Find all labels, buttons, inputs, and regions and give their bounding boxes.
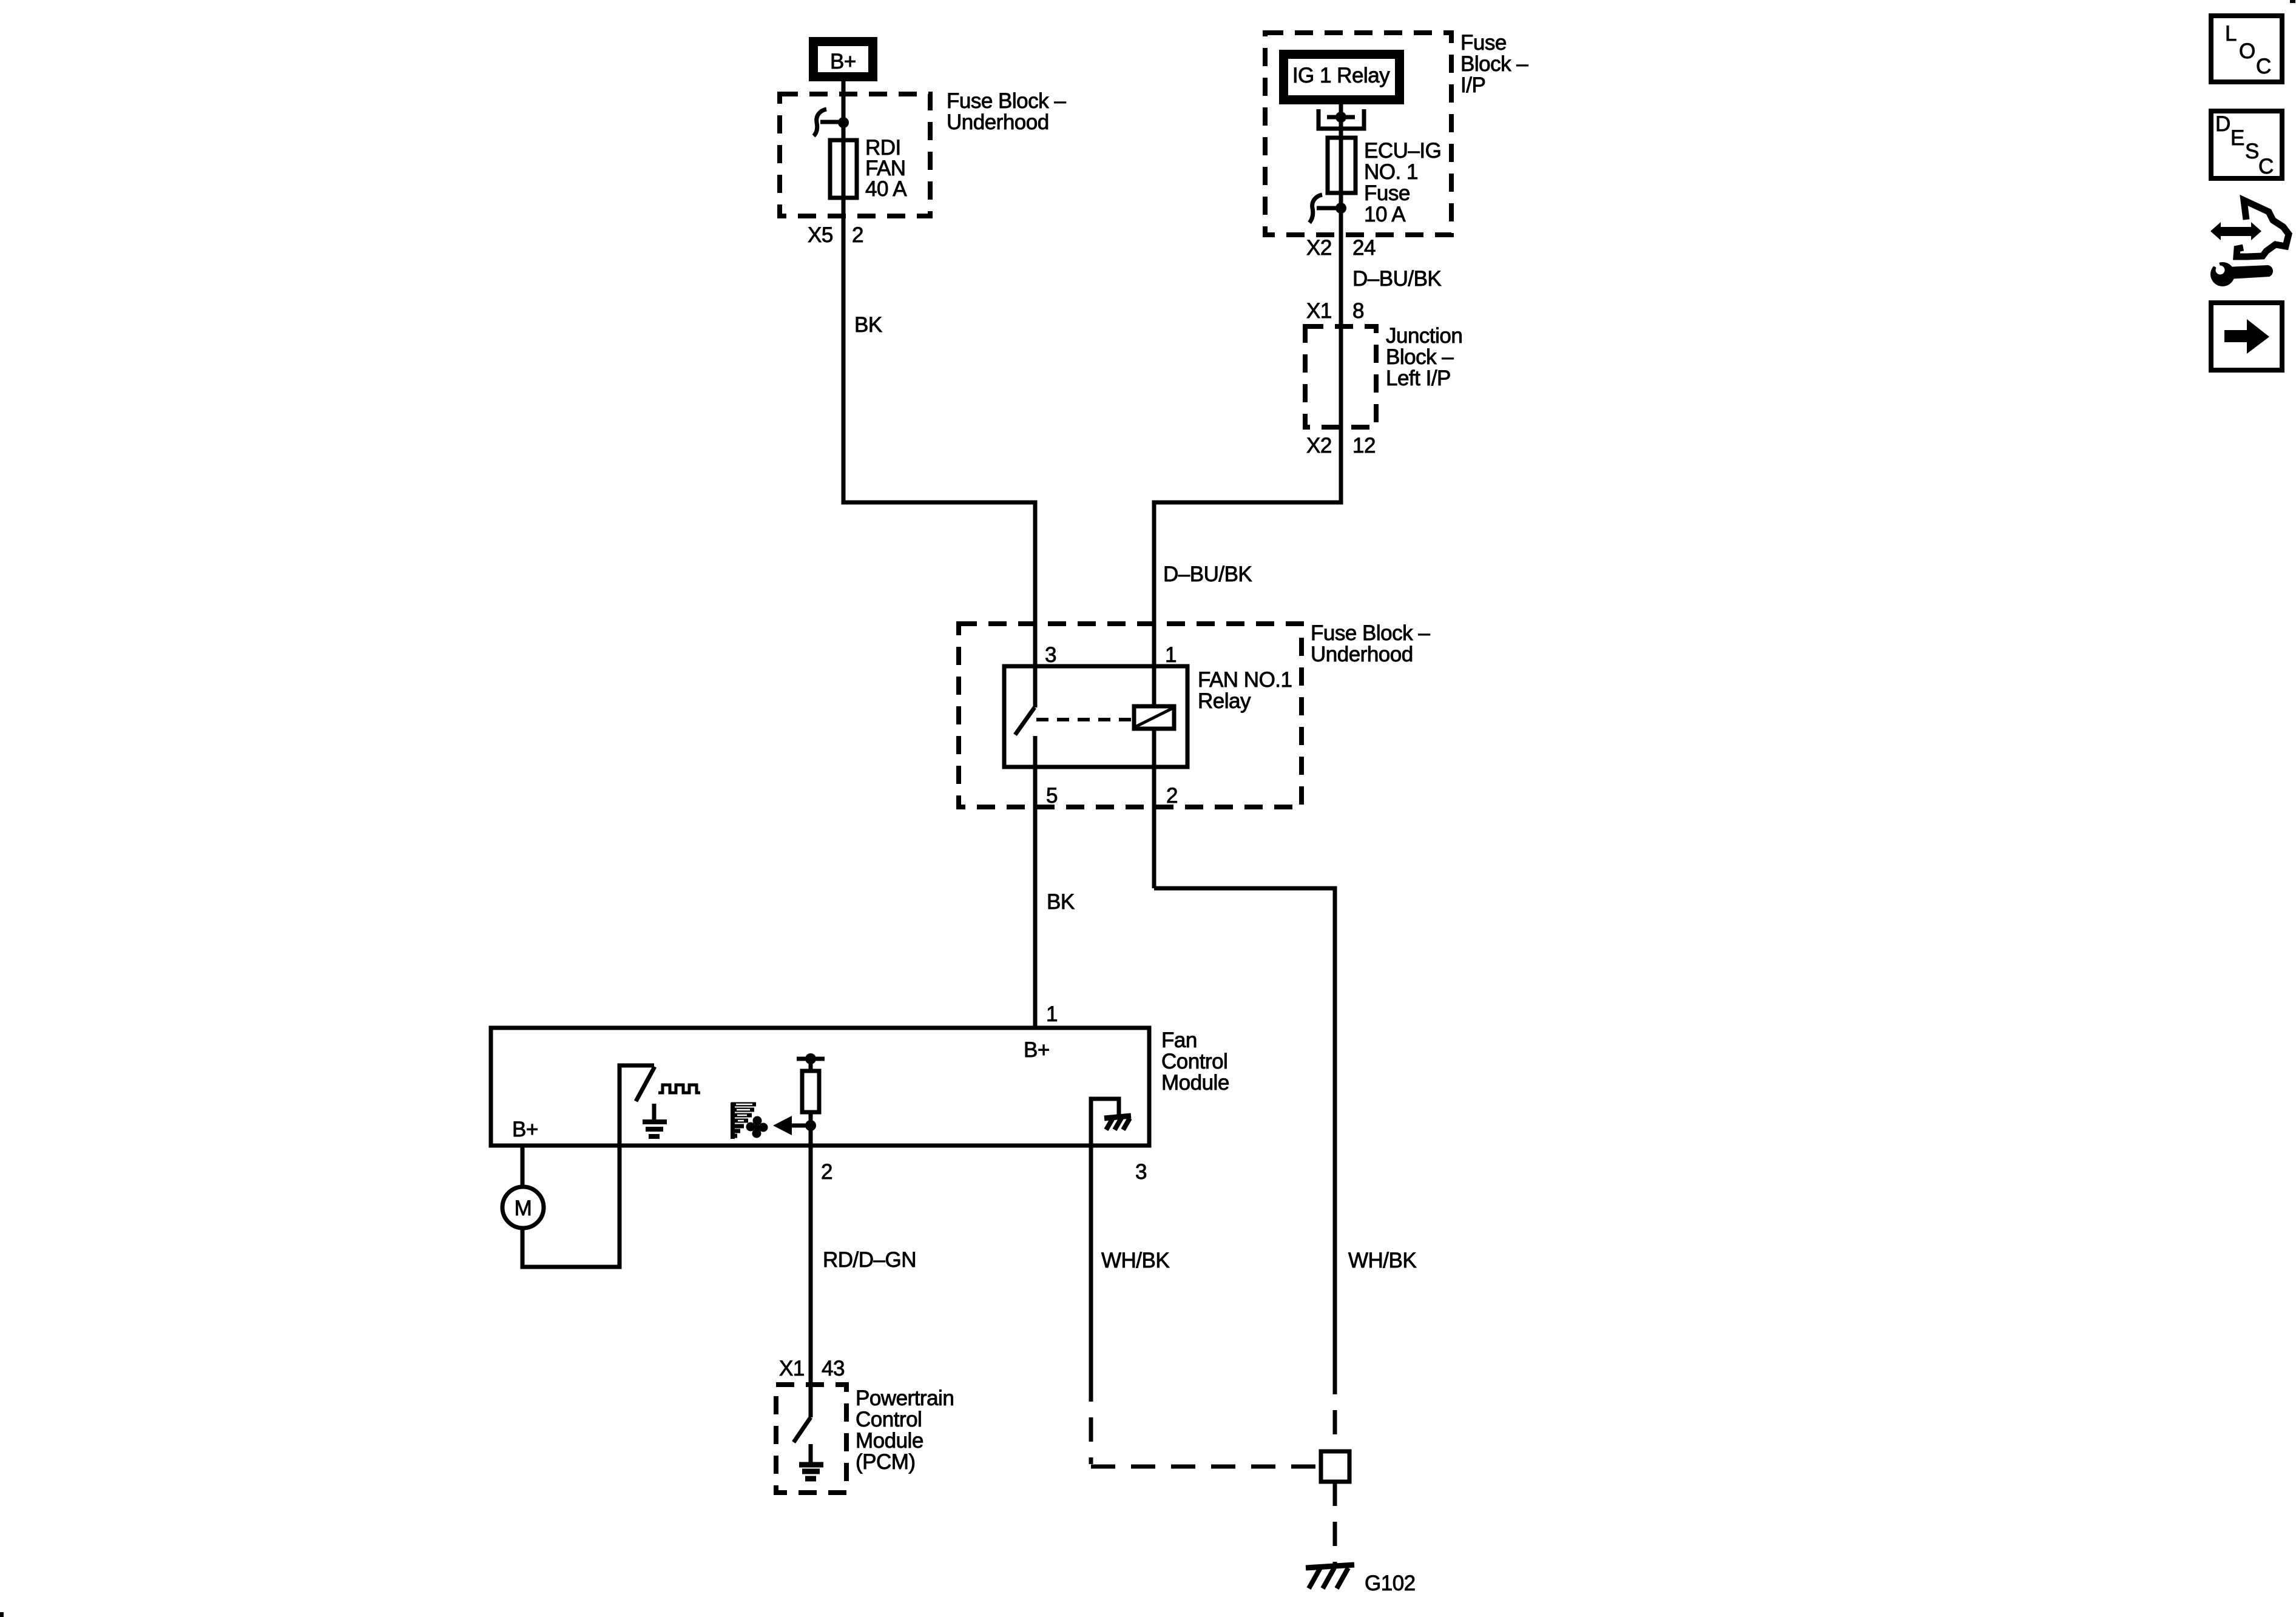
- svg-text:B+: B+: [512, 1118, 538, 1141]
- svg-text:1: 1: [1165, 643, 1177, 667]
- svg-text:43: 43: [822, 1357, 845, 1380]
- wire hook to junction: [1317, 206, 1337, 211]
- switch driver inside module: [620, 1065, 654, 1146]
- svg-text:RD/D–GN: RD/D–GN: [823, 1248, 916, 1272]
- svg-text:8: 8: [1352, 299, 1364, 323]
- svg-text:I/P: I/P: [1460, 73, 1485, 97]
- svg-text:D–BU/BK: D–BU/BK: [1352, 267, 1441, 291]
- wire IG1 relay down through ECU-IG fuse, jog left at y828 to relay pin 1: [1154, 104, 1341, 888]
- splice S1 box: [1321, 1451, 1349, 1482]
- node junction dot above ECU-IG fuse: [1335, 112, 1346, 123]
- wire relay pin 5 down to fan control module pin 1: [1033, 736, 1038, 1028]
- svg-text:Underhood: Underhood: [1311, 643, 1413, 666]
- airflow cone icon: [731, 1102, 756, 1139]
- ground earth symbol under switch: [643, 1104, 667, 1136]
- svg-text:D: D: [2215, 112, 2230, 136]
- pin labels X1 43: [779, 1357, 845, 1380]
- svg-text:B+: B+: [830, 50, 856, 73]
- svg-text:Fuse: Fuse: [1460, 31, 1507, 55]
- label Fuse Block Underhood: [947, 89, 1066, 134]
- svg-text:(PCM): (PCM): [856, 1450, 916, 1474]
- icon next arrow box: [2211, 303, 2282, 370]
- powertrain control module PCM dashed box: [776, 1385, 846, 1493]
- svg-text:Underhood: Underhood: [947, 110, 1049, 134]
- svg-text:40 A: 40 A: [865, 177, 907, 201]
- fuse block underhood dashed box (upper left): [780, 94, 930, 216]
- ground earth symbol inside PCM: [799, 1444, 823, 1479]
- fuse ECU-IG NO. 1 10 A: [1328, 138, 1356, 193]
- svg-text:12: 12: [1352, 434, 1376, 457]
- svg-text:Fuse Block –: Fuse Block –: [1311, 621, 1430, 645]
- svg-text:FAN NO.1: FAN NO.1: [1198, 668, 1292, 692]
- label Fan Control Module: [1161, 1028, 1229, 1095]
- label Fuse Block Underhood second: [1311, 621, 1430, 666]
- svg-text:1: 1: [1046, 1002, 1058, 1026]
- relay switch blade contact: [1015, 707, 1035, 735]
- node T-bar above resistor: [797, 1057, 825, 1061]
- svg-text:Relay: Relay: [1198, 689, 1251, 713]
- svg-text:2: 2: [852, 223, 863, 247]
- svg-text:S: S: [2245, 140, 2259, 163]
- svg-text:WH/BK: WH/BK: [1348, 1249, 1416, 1272]
- icon LOC box: [2211, 16, 2282, 82]
- fuse holder bracket: [1319, 109, 1364, 129]
- relay coil box: [1134, 706, 1174, 729]
- svg-text:X2: X2: [1306, 236, 1332, 260]
- svg-text:WH/BK: WH/BK: [1101, 1249, 1169, 1272]
- fuse RDI FAN 40 A: [830, 140, 857, 198]
- svg-text:X1: X1: [1306, 299, 1332, 323]
- svg-text:Powertrain: Powertrain: [856, 1386, 954, 1410]
- junction block left I/P dashed box: [1305, 326, 1376, 427]
- fuse clip hook symbol: [814, 109, 826, 136]
- switch blade: [636, 1067, 655, 1101]
- page mark bottom left: [0, 1612, 4, 1617]
- label Fuse Block I/P: [1460, 31, 1528, 97]
- wire pin 3 down solid: [1089, 1146, 1093, 1377]
- resistor R1 sense element: [802, 1071, 819, 1112]
- wire arrow stem: [791, 1124, 811, 1128]
- svg-text:BK: BK: [854, 313, 882, 337]
- label Powertrain Control Module PCM: [856, 1386, 954, 1474]
- wire B+ feed down through RDI FAN fuse, jog right at y828 to relay pin 3: [843, 81, 1035, 707]
- relay coil diagonal: [1135, 708, 1173, 727]
- relay K1 FAN NO.1 box: [1004, 666, 1187, 767]
- fuse block underhood dashed box (relay): [959, 624, 1302, 807]
- switch blade inside PCM: [794, 1417, 811, 1442]
- icon DESC box: [2211, 111, 2282, 178]
- wire T-bar to resistor: [809, 1059, 813, 1071]
- ground chassis symbol G102: [1306, 1565, 1354, 1588]
- node junction dot below ECU-IG fuse: [1335, 203, 1346, 214]
- pin labels X1 8: [1306, 299, 1364, 323]
- svg-text:L: L: [2225, 22, 2237, 46]
- svg-text:X1: X1: [779, 1357, 805, 1380]
- wire motor loop B+ pin to motor to switch leg: [522, 1146, 620, 1267]
- svg-text:2: 2: [821, 1160, 832, 1184]
- node junction dot at arrow tap: [805, 1120, 816, 1131]
- wire hook to junction: [820, 120, 841, 124]
- fan control module box: [491, 1028, 1149, 1146]
- label FAN NO.1 Relay: [1198, 668, 1292, 713]
- svg-text:3: 3: [1045, 643, 1056, 667]
- svg-text:24: 24: [1352, 236, 1376, 260]
- svg-text:Control: Control: [1161, 1050, 1227, 1073]
- svg-text:Junction: Junction: [1386, 324, 1462, 348]
- svg-text:10 A: 10 A: [1364, 203, 1406, 226]
- svg-text:5: 5: [1046, 784, 1058, 808]
- wire dashed splice to ground G102: [1333, 1482, 1337, 1564]
- icon service tool with arrows: [2205, 200, 2289, 286]
- label Junction Block Left I/P: [1386, 324, 1462, 390]
- svg-text:O: O: [2239, 39, 2255, 63]
- svg-text:Module: Module: [856, 1429, 923, 1453]
- svg-text:Block –: Block –: [1386, 345, 1454, 369]
- ground chassis symbol inside module: [1104, 1116, 1131, 1130]
- page mark top right: [2290, 0, 2295, 3]
- wire resistor through pin 2 down to PCM: [809, 1112, 813, 1417]
- svg-text:C: C: [2256, 55, 2271, 78]
- battery feed B+ symbol box: [809, 37, 877, 81]
- relay actuation dashed link: [1036, 718, 1133, 721]
- svg-text:E: E: [2230, 126, 2244, 150]
- svg-text:BK: BK: [1047, 890, 1075, 914]
- IG 1 Relay feed symbol box: [1279, 50, 1404, 104]
- arrowhead toward fan: [773, 1116, 792, 1135]
- PWM waveform symbol: [658, 1085, 700, 1093]
- svg-text:ECU–IG: ECU–IG: [1364, 139, 1441, 163]
- svg-text:Fuse: Fuse: [1364, 181, 1410, 205]
- svg-text:G102: G102: [1365, 1571, 1416, 1595]
- svg-text:Left I/P: Left I/P: [1386, 366, 1451, 390]
- svg-text:C: C: [2258, 155, 2274, 178]
- pin labels X5 2: [808, 223, 863, 247]
- value label ECU-IG NO. 1 Fuse 10 A: [1364, 139, 1441, 226]
- wire crossbar at fuse top: [1327, 115, 1355, 120]
- node junction dot above resistor: [805, 1053, 816, 1064]
- svg-text:B+: B+: [1024, 1038, 1050, 1062]
- wire pin 3 dashed to splice: [1091, 1377, 1321, 1467]
- svg-text:X5: X5: [808, 223, 833, 247]
- svg-text:Fan: Fan: [1161, 1028, 1197, 1052]
- svg-text:Block –: Block –: [1460, 52, 1528, 76]
- svg-text:D–BU/BK: D–BU/BK: [1163, 562, 1252, 586]
- svg-text:IG 1 Relay: IG 1 Relay: [1292, 64, 1390, 87]
- fan blades icon: [746, 1116, 768, 1138]
- svg-text:M: M: [515, 1197, 532, 1220]
- svg-text:NO. 1: NO. 1: [1364, 160, 1418, 184]
- value label RDI FAN 40 A: [865, 136, 907, 201]
- pin labels X2 12: [1306, 434, 1376, 457]
- node junction dot above RDI FAN fuse: [838, 117, 849, 128]
- svg-text:X2: X2: [1306, 434, 1332, 457]
- svg-text:Module: Module: [1161, 1071, 1229, 1095]
- svg-text:3: 3: [1135, 1160, 1147, 1184]
- svg-text:2: 2: [1166, 784, 1178, 808]
- svg-text:Fuse Block –: Fuse Block –: [947, 89, 1066, 113]
- wire dashed ground path to splice: [1333, 1370, 1337, 1451]
- wire relay pin 2 jog right at y1464 down right side: [1154, 888, 1335, 1370]
- wire pin 3 internal to chassis ground: [1091, 1099, 1119, 1144]
- svg-text:Control: Control: [856, 1408, 922, 1431]
- pin labels X2 24: [1306, 236, 1376, 260]
- fuse block I/P dashed box: [1265, 33, 1451, 235]
- fuse clip hook symbol lower: [1309, 195, 1322, 223]
- motor M1 fan motor: [502, 1187, 544, 1228]
